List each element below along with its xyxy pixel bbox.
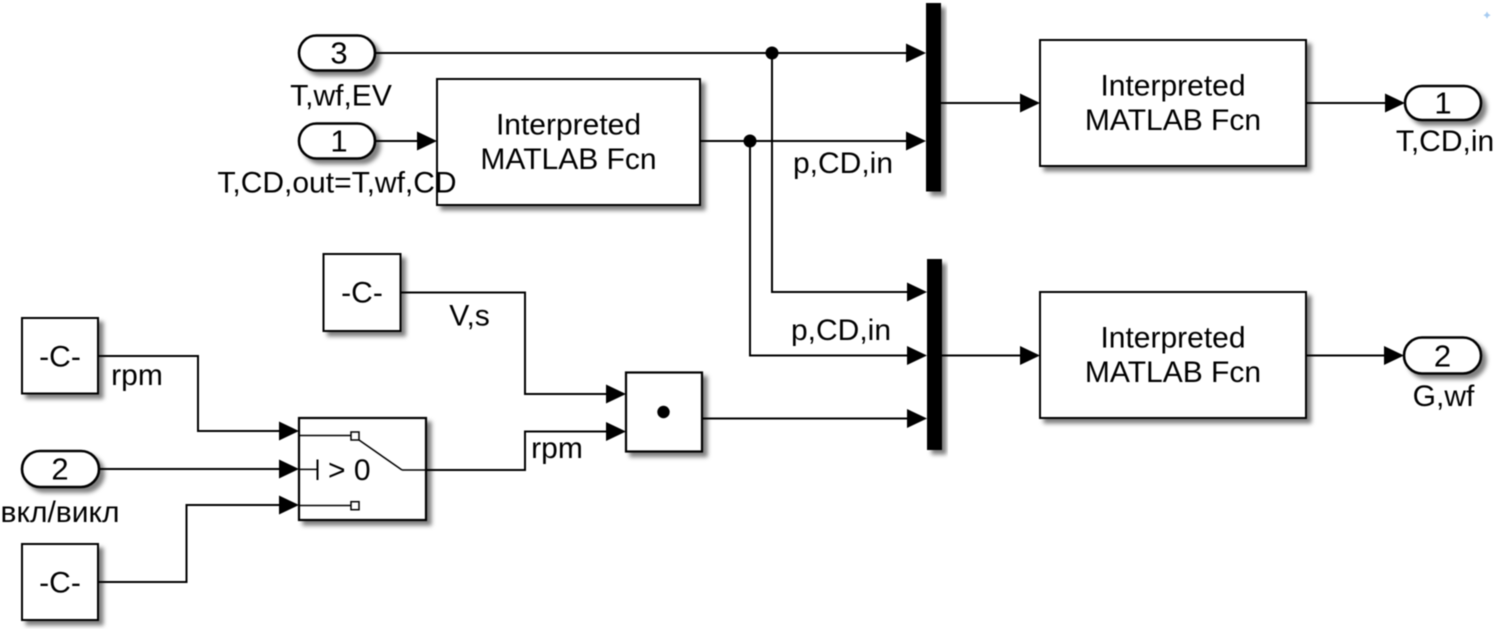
junction node on port3 wire <box>766 47 779 60</box>
svg-text:2: 2 <box>1434 339 1451 374</box>
inport 3 <box>299 36 375 71</box>
outport 2 <box>1404 338 1481 374</box>
svg-text:> 0: > 0 <box>328 454 371 487</box>
product block <box>626 373 702 452</box>
wire const rpm to switch input1 <box>98 356 281 431</box>
wire junction down to mux2 input1 <box>772 53 909 292</box>
wire mux1 out to B2 <box>941 102 1022 104</box>
mux2 <box>927 259 942 450</box>
svg-text:3: 3 <box>330 36 347 71</box>
switch input1 square <box>351 432 359 440</box>
wire port2 to switch input2 <box>99 468 281 470</box>
svg-text:1: 1 <box>1434 86 1451 121</box>
wire B2 out to outport 1 <box>1306 102 1387 104</box>
svg-text:rpm: rpm <box>111 359 163 392</box>
arrowhead into mux2 input3 <box>907 409 927 428</box>
outport 1 <box>1405 86 1481 121</box>
svg-text:-C-: -C- <box>39 341 81 374</box>
svg-text:вкл/викл: вкл/викл <box>1 496 120 529</box>
svg-text:Interpreted: Interpreted <box>1100 70 1245 103</box>
svg-text:p,CD,in: p,CD,in <box>791 314 891 347</box>
svg-text:1: 1 <box>330 124 347 159</box>
wire const V,s to product input1 <box>401 293 609 395</box>
svg-text:V,s: V,s <box>449 300 490 333</box>
block B1 Interpreted MATLAB Fcn <box>437 79 700 205</box>
junction node on B1 out wire <box>744 135 757 148</box>
svg-text:-C-: -C- <box>39 567 81 600</box>
switch output stub <box>402 469 425 471</box>
switch lever diagonal <box>359 440 402 470</box>
svg-text:rpm: rpm <box>531 432 583 465</box>
arrowhead into mux2 input1 <box>907 283 927 302</box>
arrowhead into switch input3 <box>279 496 299 515</box>
wire port3 to mux1 <box>375 52 908 54</box>
wire B1 out to mux1 input2 <box>700 140 908 142</box>
svg-text:T,CD,out=T,wf,CD: T,CD,out=T,wf,CD <box>217 167 456 200</box>
svg-text:MATLAB Fcn: MATLAB Fcn <box>1085 104 1261 137</box>
block B3 Interpreted MATLAB Fcn <box>1040 292 1306 418</box>
block B2 Interpreted MATLAB Fcn <box>1040 40 1306 166</box>
inport 1 <box>299 124 375 159</box>
arrowhead into B1 <box>417 132 437 151</box>
arrowhead into switch input1 <box>279 422 299 441</box>
wire mux2 out to B3 <box>942 355 1022 357</box>
svg-text:p,CD,in: p,CD,in <box>793 147 893 180</box>
svg-text:2: 2 <box>51 452 68 487</box>
svg-text:MATLAB Fcn: MATLAB Fcn <box>1085 356 1261 389</box>
svg-text:T,wf,EV: T,wf,EV <box>290 80 392 113</box>
wire junction down to mux2 input2 <box>750 141 909 356</box>
svg-text:G,wf: G,wf <box>1413 380 1475 413</box>
svg-text:MATLAB Fcn: MATLAB Fcn <box>480 143 656 176</box>
arrowhead into B2 <box>1020 94 1040 113</box>
svg-text:-C-: -C- <box>341 277 383 310</box>
arrowhead into outport 2 <box>1384 346 1404 365</box>
switch input2 stub <box>300 468 318 470</box>
svg-text:Interpreted: Interpreted <box>1100 322 1245 355</box>
switch block <box>299 418 426 520</box>
wire product out to mux2 input3 <box>702 418 909 420</box>
arrowhead into mux1 input2 <box>906 132 926 151</box>
switch input3 square <box>351 502 359 510</box>
product dot <box>657 406 669 418</box>
constant -C- (bottom) <box>22 544 98 620</box>
wire port1 to block B1 <box>375 140 419 142</box>
wire switch out to product input2 <box>426 432 608 471</box>
switch input3 stub <box>300 505 351 507</box>
arrowhead into outport 1 <box>1385 94 1405 113</box>
constant -C- (rpm) <box>22 318 98 394</box>
svg-text:T,CD,in: T,CD,in <box>1396 125 1494 158</box>
mux1 <box>926 3 941 192</box>
arrowhead into switch input2 <box>279 460 299 479</box>
arrowhead into mux1 input1 <box>906 44 926 63</box>
switch threshold tick <box>317 460 319 481</box>
svg-text:Interpreted: Interpreted <box>496 109 641 142</box>
switch input1 stub <box>300 435 351 437</box>
wire B3 out to outport 2 <box>1306 355 1386 357</box>
constant -C- (V,s) <box>324 254 401 331</box>
wire const bottom to switch input3 <box>98 505 281 582</box>
inport 2 <box>22 451 99 487</box>
arrowhead into B3 <box>1020 346 1040 365</box>
blue badge artifact top right <box>1483 12 1490 19</box>
arrowhead into product input2 <box>606 422 626 441</box>
arrowhead into product input1 <box>606 385 626 404</box>
arrowhead into mux2 input2 <box>907 346 927 365</box>
